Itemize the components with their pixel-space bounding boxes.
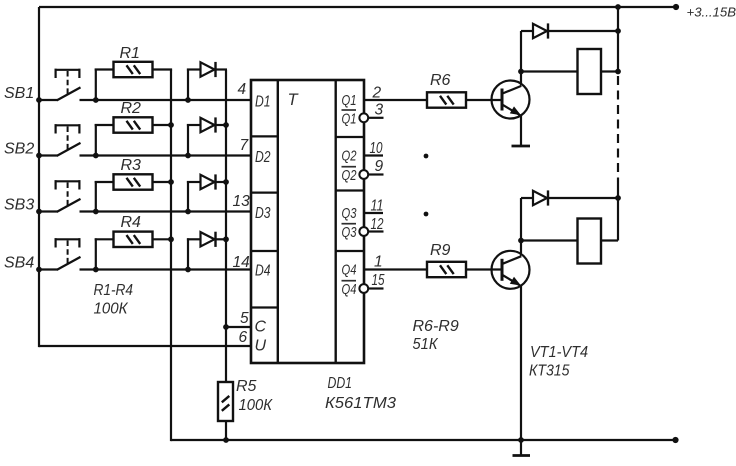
label VT1-VT4	[530, 344, 588, 361]
svg-text:Q3: Q3	[342, 225, 357, 241]
svg-text:14: 14	[233, 254, 251, 271]
pushbutton SB4 contact arm	[57, 257, 81, 270]
wire pin 5 stub	[226, 326, 251, 328]
label pin 6	[239, 329, 248, 346]
label R1	[120, 45, 140, 62]
wire R5 to bottom rail	[225, 420, 227, 440]
svg-text:100К: 100К	[239, 397, 274, 414]
node continuation dot upper	[424, 154, 429, 159]
diode VD stage 1 (relay freewheel)	[533, 23, 548, 38]
wire resistor R1 right leg to bus	[153, 68, 173, 70]
svg-text:SB4: SB4	[4, 255, 34, 272]
pushbutton SB4 actuator dashed link	[67, 241, 69, 264]
svg-text:КТ315: КТ315	[529, 363, 570, 380]
node junction C-input (pin 5) on cathode bus	[223, 324, 229, 330]
node junction cathode bus row 2	[223, 122, 229, 128]
node junction resistor tap row 3	[93, 209, 99, 215]
wire row 2 fixed contact segment	[39, 154, 58, 156]
node junction relay 1 right	[615, 69, 621, 75]
transistor Q4 (VT4) circle	[492, 251, 530, 289]
node junction emitter/bottom rail	[518, 437, 524, 443]
label pin 13	[233, 193, 251, 210]
wire diode VD2 cathode to bus	[216, 124, 228, 126]
wire pin 11 output stub	[364, 212, 383, 214]
wire left button bus (vertical)	[38, 7, 40, 347]
label SB2	[4, 141, 34, 158]
label C	[255, 319, 267, 336]
wire supply column solid lower	[617, 182, 619, 241]
pushbutton SB4 actuator bracket	[55, 238, 81, 247]
node junction diode anode row 4	[185, 267, 191, 273]
wire row 4 fixed contact segment	[39, 268, 58, 270]
svg-text:SB1: SB1	[4, 85, 34, 102]
resistor R5	[218, 382, 233, 421]
IC DD1 right field separator	[335, 80, 337, 363]
svg-text:51К: 51К	[413, 336, 439, 353]
label R5	[236, 378, 257, 395]
diode VD3 (input steering diode)	[201, 174, 216, 189]
node junction left bus row 2	[36, 153, 42, 159]
wire row 3 to resistor/diode taps	[80, 210, 252, 212]
svg-text:Q4: Q4	[342, 282, 357, 298]
label pin 14	[233, 254, 251, 271]
node junction diode anode row 3	[185, 209, 191, 215]
label D2	[255, 149, 271, 166]
node +3...15V supply terminal	[673, 4, 679, 10]
transistor VT1 collector	[503, 72, 522, 94]
svg-text:1: 1	[374, 254, 383, 271]
svg-text:R1-R4: R1-R4	[94, 282, 134, 299]
pushbutton SB1 actuator bracket	[55, 69, 81, 78]
node junction R5 to bottom rail	[223, 437, 229, 443]
wire resistor R4 left leg	[95, 238, 114, 269]
label VT1-VT4 type КТ315	[529, 363, 570, 380]
svg-text:2: 2	[372, 85, 382, 102]
svg-text:+3...15В: +3...15В	[687, 5, 736, 20]
inversion circle pin 12	[359, 227, 368, 236]
svg-text:R6: R6	[430, 72, 451, 89]
wire bottom ground rail	[171, 439, 676, 441]
wire row 1 to resistor/diode taps	[80, 99, 252, 101]
wire diode VD3 cathode to bus	[216, 181, 228, 183]
wire diode VD1 anode stub	[187, 69, 201, 101]
label pin 7	[240, 137, 250, 154]
wire diode VD1 cathode to bus	[216, 68, 228, 70]
inversion circle pin 9	[359, 170, 368, 179]
node junction collector VT1	[518, 69, 524, 75]
svg-text:Q1: Q1	[342, 93, 357, 109]
resistor R3	[114, 174, 153, 189]
svg-text:9: 9	[375, 158, 384, 175]
resistor R9	[427, 262, 466, 277]
wire diode VD4 anode stub	[187, 238, 201, 269]
wire diode VD2 anode stub	[187, 124, 201, 156]
diode VD2 (input steering diode)	[201, 117, 216, 132]
svg-text:5: 5	[240, 310, 249, 327]
label pin 9	[375, 158, 384, 175]
label R1-R4 value 100К	[94, 301, 129, 318]
node junction diode anode row 1	[185, 97, 191, 103]
pushbutton SB3 contact arm	[57, 199, 81, 212]
label R3	[121, 157, 142, 174]
label pin 2	[372, 85, 382, 102]
label D1	[255, 94, 271, 111]
svg-text:R6-R9: R6-R9	[413, 318, 459, 335]
label inverted Q1 with overbar	[342, 110, 357, 127]
wire top supply rail +3...15V	[39, 6, 676, 8]
wire diode-cathode bus (vertical x=226, top to C junction)	[225, 70, 227, 383]
svg-text:D1: D1	[255, 94, 271, 111]
label SB3	[4, 197, 34, 214]
wire U-input line (left bus to pin 6)	[39, 345, 251, 347]
label pin 3	[375, 102, 384, 119]
label pin 4	[238, 81, 247, 98]
wire resistor R4 right leg to bus	[153, 238, 173, 240]
svg-text:Q3: Q3	[342, 206, 357, 222]
svg-text:R9: R9	[430, 242, 451, 259]
svg-text:Q2: Q2	[342, 149, 357, 165]
label R9	[430, 242, 451, 259]
wire row 1 fixed contact segment	[39, 99, 58, 101]
label inverted Q4 with overbar	[342, 281, 357, 298]
label T (function symbol)	[288, 91, 300, 109]
IC DD1 left field separator	[277, 80, 279, 363]
node junction supply column top	[615, 4, 621, 10]
label Q1 (direct output)	[342, 93, 357, 109]
inversion circle pin 3	[359, 113, 368, 122]
wire collector node to relay K1	[521, 70, 578, 72]
relay K4 coil	[578, 219, 602, 264]
diode VD4 (input steering diode)	[201, 232, 216, 247]
relay K1 coil	[578, 49, 602, 94]
svg-text:U: U	[255, 338, 267, 355]
wire relay K4 to supply column	[601, 239, 618, 241]
node junction diode cathode stage 4	[615, 195, 621, 201]
inversion circle pin 15	[359, 284, 368, 293]
node junction resistor bus row 2	[168, 122, 174, 128]
node bottom rail right terminal	[672, 437, 678, 443]
svg-text:15: 15	[372, 272, 385, 289]
wire resistor R2 right leg to bus	[153, 124, 173, 126]
wire diode cathode to supply column stage 4	[548, 197, 618, 199]
label R1-R4	[94, 282, 134, 299]
wire diode cathode to supply column stage 1	[548, 30, 618, 32]
wire pin 3 output stub	[368, 117, 383, 119]
label Q3 (direct output)	[342, 206, 357, 222]
wire pin 1 output stub	[364, 268, 427, 270]
label R6	[430, 72, 451, 89]
svg-text:R4: R4	[121, 214, 142, 231]
wire pin 2 output stub	[364, 99, 427, 101]
node junction left bus row 1	[36, 97, 42, 103]
wire diode VD3 anode stub	[187, 181, 201, 212]
wire diode anode leg stage 1	[521, 31, 533, 72]
ground VT1 emitter	[512, 145, 531, 148]
wire R6 to base VT1	[465, 99, 502, 101]
label DD1	[328, 375, 353, 392]
resistor R6	[427, 92, 466, 107]
node junction collector VT4	[518, 238, 524, 244]
svg-text:100К: 100К	[94, 301, 129, 318]
label SB1	[4, 85, 34, 102]
transistor VT4 collector	[503, 241, 522, 264]
pushbutton SB2 actuator bracket	[55, 124, 81, 133]
label pin 10	[370, 140, 383, 157]
wire supply column solid upper	[617, 7, 619, 72]
node continuation dot lower	[424, 212, 429, 217]
label D3	[255, 205, 271, 222]
wire resistor R3 right leg to bus	[153, 181, 173, 183]
resistor R4	[114, 232, 153, 247]
wire pin 15 output stub	[368, 287, 383, 289]
node junction cathode bus row 3	[223, 179, 229, 185]
label pin 12	[371, 216, 384, 233]
resistor R1	[114, 62, 153, 77]
ground bottom rail	[513, 440, 531, 456]
label inverted Q3 with overbar	[342, 224, 357, 241]
svg-text:10: 10	[370, 140, 383, 157]
svg-text:R5: R5	[236, 378, 257, 395]
transistor VT1 base bar	[501, 89, 504, 111]
label R5 value 100К	[239, 397, 274, 414]
svg-text:SB3: SB3	[4, 197, 34, 214]
resistor R2	[114, 117, 153, 132]
label pin 11	[371, 198, 384, 215]
wire VT4 emitter down to bottom rail	[520, 285, 522, 440]
wire diode VD4 cathode to bus	[216, 238, 228, 240]
label inverted Q2 with overbar	[342, 167, 357, 184]
wire R9 to base VT4	[465, 268, 502, 270]
svg-text:VT1-VT4: VT1-VT4	[530, 344, 588, 361]
wire pin 12 output stub	[368, 230, 383, 232]
svg-text:4: 4	[238, 81, 247, 98]
label Q4 (direct output)	[342, 263, 357, 279]
wire supply column dashed section	[617, 76, 619, 182]
wire diode anode leg stage 4	[521, 198, 533, 241]
node junction resistor tap row 4	[93, 267, 99, 273]
node junction resistor bus row 4	[168, 236, 174, 242]
svg-text:К561ТМ3: К561ТМ3	[325, 395, 396, 412]
svg-text:R3: R3	[121, 157, 142, 174]
wire collector node to relay K4	[521, 239, 578, 241]
diode VD1 (input steering diode)	[201, 62, 216, 77]
svg-text:Q1: Q1	[342, 111, 357, 127]
wire VT1 emitter down	[520, 115, 522, 147]
label Q2 (direct output)	[342, 149, 357, 165]
svg-text:DD1: DD1	[328, 375, 353, 392]
svg-text:Q2: Q2	[342, 168, 357, 184]
svg-text:D2: D2	[255, 149, 271, 166]
label SB4	[4, 255, 34, 272]
svg-text:13: 13	[233, 193, 251, 210]
label +3...15В	[687, 5, 736, 20]
op-amp U1 — IC DD1 body outline	[251, 80, 364, 363]
node junction diode cathode stage 1	[615, 28, 621, 34]
node junction resistor bus row 3	[168, 179, 174, 185]
node junction left bus row 4	[36, 267, 42, 273]
svg-text:6: 6	[239, 329, 248, 346]
label U	[255, 338, 267, 355]
pushbutton SB2 contact arm	[57, 143, 81, 156]
diode VD stage 4 (relay freewheel)	[533, 190, 548, 205]
wire row 4 to resistor/diode taps	[80, 268, 252, 270]
label pin 15	[372, 272, 385, 289]
label R6-R9	[413, 318, 459, 335]
wire row 2 to resistor/diode taps	[80, 154, 252, 156]
wire pin 9 output stub	[368, 173, 383, 175]
svg-text:SB2: SB2	[4, 141, 34, 158]
label R4	[121, 214, 142, 231]
svg-text:R2: R2	[121, 100, 142, 117]
svg-text:12: 12	[371, 216, 384, 233]
node junction resistor tap row 2	[93, 153, 99, 159]
label R6-R9 value 51К	[413, 336, 439, 353]
pushbutton SB3 actuator bracket	[55, 180, 81, 189]
wire relay K1 to supply column	[601, 70, 618, 72]
label pin 5	[240, 310, 249, 327]
node junction diode anode row 2	[185, 153, 191, 159]
svg-text:7: 7	[240, 137, 250, 154]
wire resistor R2 left leg	[95, 124, 114, 156]
pushbutton SB1 contact arm	[57, 87, 81, 100]
label К561ТМ3	[325, 395, 396, 412]
node junction resistor tap row 1	[93, 97, 99, 103]
wire pin 10 output stub	[364, 154, 383, 156]
transistor VT1 emitter with arrow	[503, 105, 522, 116]
pushbutton SB3 actuator dashed link	[67, 183, 69, 206]
node junction left bus row 3	[36, 209, 42, 215]
transistor Q1 (VT1) circle	[492, 81, 530, 119]
svg-text:R1: R1	[120, 45, 140, 62]
pushbutton SB1 actuator dashed link	[67, 71, 69, 94]
label R2	[121, 100, 142, 117]
transistor VT4 base bar	[501, 259, 504, 281]
label pin 1	[374, 254, 383, 271]
svg-text:D4: D4	[255, 263, 271, 280]
wire row 3 fixed contact segment	[39, 210, 58, 212]
label D4	[255, 263, 271, 280]
svg-text:11: 11	[371, 198, 384, 215]
wire resistor common bus (vertical x=171)	[170, 70, 172, 442]
svg-text:3: 3	[375, 102, 384, 119]
wire resistor R1 left leg	[95, 69, 114, 101]
svg-text:D3: D3	[255, 205, 271, 222]
svg-text:C: C	[255, 319, 267, 336]
wire resistor R3 left leg	[95, 181, 114, 212]
transistor VT4 emitter with arrow	[503, 275, 522, 286]
pushbutton SB2 actuator dashed link	[67, 127, 69, 150]
IC DD1 right field dividers	[336, 137, 364, 251]
svg-text:Q4: Q4	[342, 263, 357, 279]
node junction cathode bus row 4	[223, 236, 229, 242]
IC DD1 left field dividers	[251, 136, 278, 307]
